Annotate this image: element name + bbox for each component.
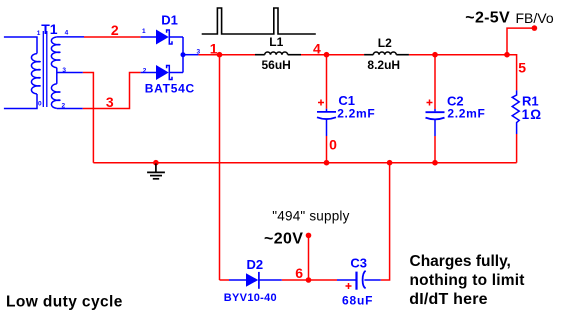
svg-text:D1: D1 [161,13,178,28]
svg-text:"494" supply: "494" supply [272,208,349,223]
svg-text:2: 2 [143,67,147,74]
svg-text:0: 0 [329,136,337,152]
svg-text:1: 1 [142,28,146,35]
svg-text:BAT54C: BAT54C [145,81,195,95]
svg-text:FB/Vo: FB/Vo [516,10,554,26]
svg-text:~20V: ~20V [264,231,303,248]
svg-text:T1: T1 [41,21,58,37]
svg-text:2: 2 [62,103,66,110]
svg-text:L2: L2 [378,36,392,50]
svg-text:~2-5V: ~2-5V [465,10,510,27]
svg-text:nothing to limit: nothing to limit [410,272,525,289]
svg-text:3: 3 [62,67,66,74]
svg-text:6: 6 [295,265,303,281]
svg-text:8.2uH: 8.2uH [367,58,400,72]
svg-text:0: 0 [38,101,42,108]
svg-text:1Ω: 1Ω [522,107,543,122]
svg-text:4: 4 [65,29,69,36]
svg-text:68uF: 68uF [342,293,373,307]
svg-text:C3: C3 [350,256,367,271]
svg-text:Low duty cycle: Low duty cycle [6,293,123,310]
svg-text:2.2mF: 2.2mF [337,107,375,121]
svg-text:1: 1 [37,30,41,37]
svg-text:5: 5 [518,60,526,76]
svg-text:2.2mF: 2.2mF [447,107,485,121]
svg-text:Charges fully,: Charges fully, [410,253,511,270]
svg-text:3: 3 [106,94,114,110]
svg-text:1: 1 [210,40,218,56]
svg-text:dI/dT here: dI/dT here [409,291,487,308]
svg-text:2: 2 [111,22,119,38]
svg-text:4: 4 [313,40,321,56]
svg-text:56uH: 56uH [262,58,291,72]
svg-text:L1: L1 [269,35,283,49]
svg-text:BYV10-40: BYV10-40 [224,292,277,304]
svg-text:D2: D2 [247,257,264,272]
svg-text:3: 3 [197,48,201,55]
